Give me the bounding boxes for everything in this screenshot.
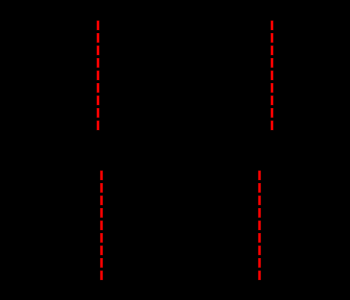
dashed red line, top-left (halo) bbox=[96, 21, 99, 131]
dashed red line, bottom-left (core) bbox=[101, 171, 103, 280]
dashed red line, bottom-right (core) bbox=[259, 171, 261, 280]
dashed red line, top-left (core) bbox=[97, 21, 99, 130]
dashed red line, top-right (halo) bbox=[270, 21, 273, 131]
dashed red line, bottom-right (halo) bbox=[258, 171, 261, 281]
dashed red line, top-right (core) bbox=[271, 21, 273, 130]
dashed red line, bottom-left (halo) bbox=[100, 171, 103, 281]
